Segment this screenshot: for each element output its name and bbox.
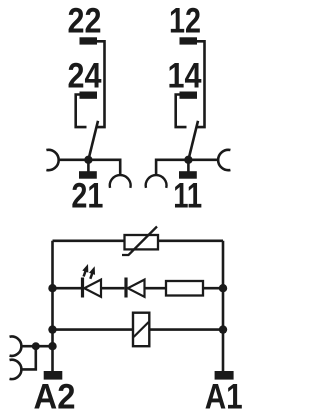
wire to lower A2 socket [21, 346, 36, 369]
svg-text:22: 22 [68, 2, 102, 41]
wire diode to resistor [145, 287, 167, 290]
LED cathode bar [81, 278, 84, 298]
wire node to terminal 21 [87, 160, 90, 172]
LED triangle [84, 280, 101, 297]
terminal 14 [180, 92, 198, 99]
socket contact A2 upper [10, 337, 22, 356]
wire terminal 24 to NO stub [76, 95, 87, 128]
node 11 [184, 156, 192, 164]
wire top branch right [158, 240, 223, 243]
wire socket to elbow (pole 21 row) [58, 160, 120, 176]
terminal A1 [215, 371, 234, 380]
wire terminal 22 to NC stub [97, 41, 105, 127]
svg-text:24: 24 [68, 57, 102, 96]
wire LED to diode [101, 287, 124, 290]
node coil branch left [48, 325, 56, 333]
terminal 22 [80, 37, 98, 44]
varistor body [125, 235, 159, 249]
node 21 [84, 156, 92, 164]
socket contact below elbow (21 row) [110, 175, 131, 188]
wire node to LED [53, 287, 83, 290]
node LED branch left [48, 284, 56, 292]
varistor strike line [122, 227, 157, 256]
switch arm pole 21 [88, 121, 98, 160]
diode triangle [128, 280, 145, 297]
terminal 12 [180, 37, 198, 44]
switch arm pole 11 [188, 121, 198, 160]
svg-text:A2: A2 [34, 378, 76, 414]
wire left bus A2 [51, 241, 54, 371]
node coil branch right [219, 325, 227, 333]
LED arrow 2 [89, 266, 95, 279]
svg-text:21: 21 [71, 177, 103, 216]
LED arrow 1 [82, 264, 88, 277]
wire right bus A1 [222, 241, 225, 371]
socket contact below elbow (11 row) [146, 175, 167, 188]
wire node to coil [53, 328, 134, 331]
node LED branch right [219, 284, 227, 292]
node A2 socket junction [48, 342, 56, 350]
wire terminal 14 to NO stub [176, 95, 187, 128]
terminal A2 [44, 371, 63, 380]
resistor body [166, 281, 203, 296]
wire bus to socket node [36, 345, 53, 348]
diode cathode bar [124, 278, 127, 298]
wire resistor to node [203, 287, 223, 290]
relay coil body [133, 313, 149, 347]
wire to upper A2 socket [21, 345, 36, 348]
wire terminal 12 to NC stub [197, 41, 205, 127]
svg-text:12: 12 [169, 2, 201, 41]
node socket pair [32, 342, 40, 350]
wire node to terminal 11 [187, 160, 190, 172]
terminal 21 [79, 171, 97, 179]
wire top branch left [53, 240, 125, 243]
svg-text:A1: A1 [205, 378, 243, 414]
terminal 11 [179, 171, 197, 179]
wire socket to elbow (pole 11 row) [156, 160, 218, 176]
svg-text:14: 14 [168, 57, 202, 96]
socket contact left of 21 [46, 150, 58, 170]
socket contact right of 11 [218, 150, 230, 170]
terminal 24 [80, 92, 98, 99]
wire coil to node [149, 328, 223, 331]
socket contact A2 lower [10, 360, 22, 379]
svg-text:11: 11 [173, 177, 202, 216]
relay coil diagonal [134, 322, 149, 337]
